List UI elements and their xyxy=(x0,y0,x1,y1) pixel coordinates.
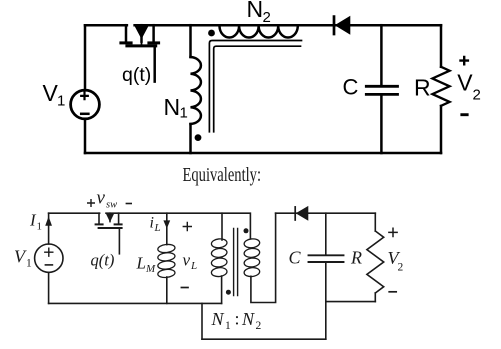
wire: right branch vertical (top) xyxy=(440,25,443,67)
switch q(t) bulk arrow xyxy=(107,214,114,221)
svg-text:L: L xyxy=(190,260,197,272)
svg-text:2: 2 xyxy=(398,262,404,274)
source V1 circle xyxy=(71,90,100,119)
svg-text:sw: sw xyxy=(106,200,117,211)
diode (bottom) triangle xyxy=(296,207,308,220)
ideal transformer secondary loops xyxy=(244,238,260,248)
svg-text:1: 1 xyxy=(180,105,188,122)
source V1 plus (bottom) xyxy=(45,248,53,256)
svg-text:v: v xyxy=(97,188,106,209)
wire: ground drop left xyxy=(201,303,203,339)
capacitor C bottom lead xyxy=(380,96,383,153)
resistor R zigzag xyxy=(432,67,449,106)
ideal transformer primary bottom lead xyxy=(221,276,223,303)
wire: top rail mid segment (switch to secondary top corner) xyxy=(106,213,250,238)
source V1 minus (bottom) xyxy=(45,264,52,266)
wire: V1 bottom lead xyxy=(84,119,87,153)
inductor N1 bottom lead xyxy=(189,124,192,153)
wire: V1 top lead xyxy=(84,25,87,90)
svg-text:v: v xyxy=(183,251,191,270)
svg-text:N: N xyxy=(164,94,181,120)
label plus V2 (top) xyxy=(459,56,469,66)
transformer core lines (bottom) xyxy=(234,229,238,296)
svg-text:N: N xyxy=(211,309,225,329)
svg-text:L: L xyxy=(136,254,146,273)
wire: bottom rail xyxy=(85,152,441,155)
label plus V2 (bottom) xyxy=(389,228,397,236)
wire: top rail left segment (to switch) xyxy=(49,212,100,214)
svg-text:i: i xyxy=(150,215,154,232)
arrow iL xyxy=(164,221,170,228)
resistor R (bottom) zigzag xyxy=(367,231,384,293)
svg-text:1: 1 xyxy=(26,258,32,270)
wire: V1 top lead xyxy=(48,213,50,244)
svg-text:2: 2 xyxy=(473,87,481,104)
current arrow I1 xyxy=(46,218,52,226)
wire: top rail main segment (MOSFET to right corner, through N2 and diode) xyxy=(135,24,441,27)
transformer core inner line xyxy=(214,46,301,132)
svg-text:M: M xyxy=(145,263,156,275)
svg-text:1: 1 xyxy=(225,320,231,332)
switch q(t) left stub xyxy=(98,213,100,223)
svg-text:R: R xyxy=(350,248,362,268)
source V1 plus xyxy=(81,93,88,100)
inductor N1 winding arcs xyxy=(191,57,201,124)
switch q(t) right stub xyxy=(118,213,120,223)
switch q(t) left contact bar xyxy=(96,223,103,225)
svg-text::: : xyxy=(235,309,240,329)
diode D (top) triangle xyxy=(336,17,350,34)
switch q(t) gate bar xyxy=(99,227,122,229)
svg-text:R: R xyxy=(414,75,431,101)
polarity dot N2 xyxy=(208,30,215,37)
wire: bottom return wire xyxy=(202,338,326,340)
svg-text:1: 1 xyxy=(57,93,65,110)
svg-text:q(t): q(t) xyxy=(122,64,151,86)
wire: secondary bottom jog xyxy=(251,213,276,302)
svg-text:C: C xyxy=(343,75,359,100)
inductor LM loops xyxy=(157,244,175,254)
label plus vL xyxy=(183,223,191,231)
wire: right branch vertical (bottom) xyxy=(440,106,443,153)
resistor R (bottom) top lead xyxy=(374,213,376,231)
inductor LM bottom lead xyxy=(166,277,168,303)
wire: right rail (diode to R) xyxy=(276,212,376,214)
label minus V2 (top) xyxy=(460,113,468,116)
wire: V1 bottom lead xyxy=(48,272,50,303)
polarity dot secondary xyxy=(244,228,249,233)
source V1 circle (bottom) xyxy=(35,244,63,272)
capacitor C top lead xyxy=(380,25,383,85)
source V1 minus xyxy=(81,113,88,116)
transistor q(t) bulk arrow xyxy=(135,26,148,38)
capacitor C (bottom) bottom lead xyxy=(325,263,327,301)
transformer core outer line xyxy=(209,41,301,132)
switch q(t) gate lead xyxy=(118,229,120,254)
svg-text:Equivalently:: Equivalently: xyxy=(183,164,262,186)
wire: output bottom rail xyxy=(326,301,376,303)
capacitor C (bottom) top lead xyxy=(325,213,327,254)
capacitor C (bottom) plates xyxy=(309,255,344,262)
transistor q(t) gate lead xyxy=(153,47,156,81)
svg-text:2: 2 xyxy=(263,9,271,26)
switch q(t) right contact bar xyxy=(115,223,122,225)
svg-text:N: N xyxy=(247,0,264,22)
switch q(t) bulk lead xyxy=(109,213,111,221)
diode D (top) cathode bar xyxy=(333,17,336,34)
svg-text:L: L xyxy=(154,222,161,234)
wire: top rail left segment (V1 to MOSFET drain) xyxy=(85,24,127,27)
svg-text:1: 1 xyxy=(37,221,43,233)
wire: bottom return riser right xyxy=(325,302,327,340)
inductor N1 winding top lead xyxy=(189,25,192,57)
transistor q(t) source contact bar xyxy=(149,41,159,44)
wire: bottom rail (primary loop) xyxy=(49,302,222,304)
transistor q(t) source stub xyxy=(152,25,155,41)
svg-text:V: V xyxy=(457,69,473,95)
svg-text:N: N xyxy=(241,309,255,329)
ideal transformer primary loops xyxy=(211,238,227,248)
ideal transformer primary top lead xyxy=(221,213,223,240)
label minus vL xyxy=(181,287,188,289)
transistor q(t) bulk lead xyxy=(140,25,143,41)
transistor q(t) drain contact bar xyxy=(121,41,131,44)
svg-text:q(t): q(t) xyxy=(91,251,115,270)
polarity dot N1 xyxy=(195,134,202,141)
label minus V2 (bottom) xyxy=(389,291,396,293)
inductor LM top lead xyxy=(166,213,168,244)
label minus vsw xyxy=(126,203,131,205)
label plus vsw xyxy=(88,200,95,207)
polarity dot primary xyxy=(226,290,231,295)
capacitor C plates xyxy=(366,86,397,94)
diode (bottom) cathode bar xyxy=(294,207,296,220)
svg-text:C: C xyxy=(289,248,302,268)
resistor R (bottom) bottom lead xyxy=(374,293,376,302)
inductor N2 winding arcs xyxy=(220,26,298,37)
svg-text:2: 2 xyxy=(256,320,262,332)
transistor q(t) drain stub xyxy=(125,25,128,41)
transistor q(t) gate bar xyxy=(127,44,156,47)
